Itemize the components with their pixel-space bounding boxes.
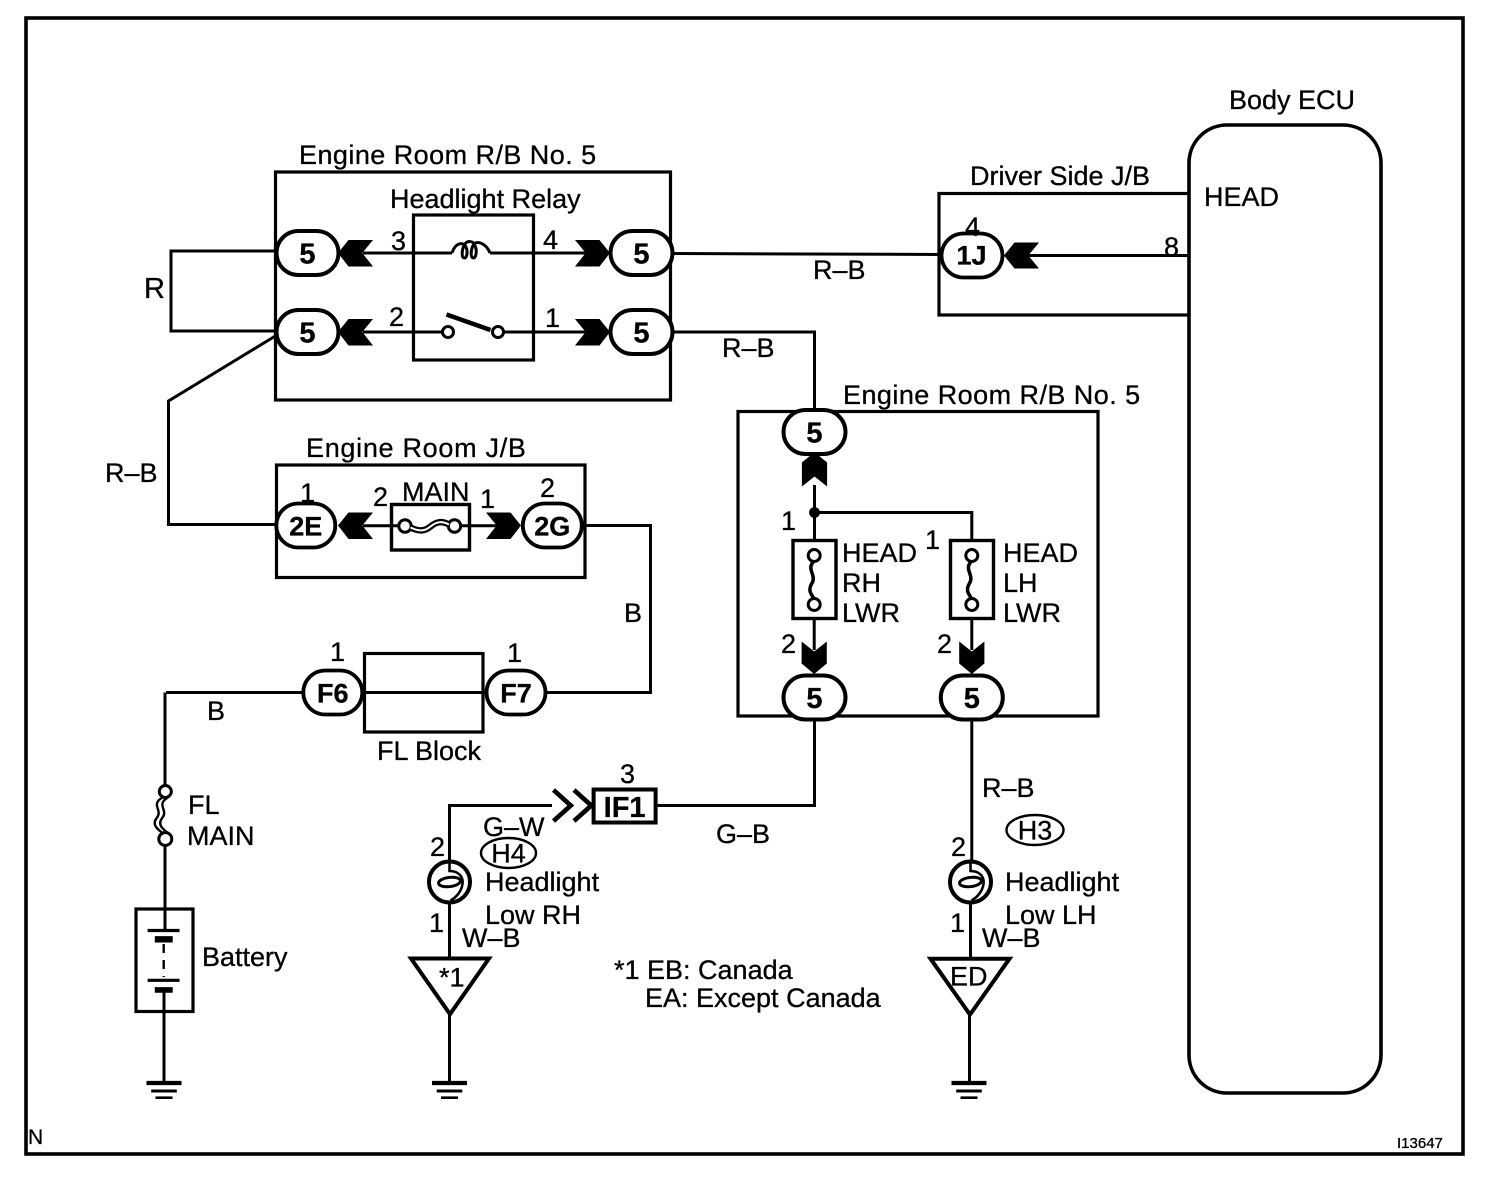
connector 5 (fuse block top): [784, 410, 846, 454]
svg-text:Headlight Relay: Headlight Relay: [390, 184, 581, 214]
svg-text:2: 2: [373, 482, 388, 512]
wire G-B: IF1 to lower-left 5: [658, 720, 815, 806]
fusible link FL MAIN terminal top: [159, 786, 171, 798]
svg-text:F6: F6: [317, 679, 349, 709]
svg-text:2: 2: [937, 629, 952, 659]
svg-text:H4: H4: [491, 839, 526, 869]
wire: arrow to relay pin 2: [363, 331, 414, 334]
wire: relay coil leads: [415, 252, 532, 255]
battery plate short (top): [155, 936, 173, 942]
svg-text:1: 1: [781, 506, 796, 536]
svg-text:2: 2: [951, 832, 966, 862]
svg-text:LH: LH: [1003, 568, 1038, 598]
wire W-B: H4 to ground *1: [448, 903, 451, 960]
wire: LH fuse to lower 5: [970, 619, 973, 651]
svg-text:1: 1: [950, 908, 965, 938]
svg-text:ED: ED: [950, 962, 988, 992]
FL Block box: [365, 654, 484, 733]
svg-text:FL Block: FL Block: [377, 736, 482, 766]
relay coil: [452, 242, 490, 258]
svg-text:*1 EB: Canada: *1 EB: Canada: [614, 955, 794, 985]
fuse HEAD RH LWR (box): [793, 541, 836, 619]
wire: HEAD pin 8 to 1J arrow: [1027, 254, 1191, 257]
wire B: F6 to left column: [166, 691, 304, 694]
ground symbol (LH): [952, 1083, 987, 1098]
wire: left column F6 down to battery: [164, 693, 167, 787]
wire B: 2G to F7: [545, 526, 651, 693]
svg-text:1: 1: [429, 908, 444, 938]
battery plate long (bottom): [148, 979, 180, 982]
svg-text:Battery: Battery: [202, 942, 288, 972]
svg-text:HEAD: HEAD: [842, 538, 917, 568]
ECU: Body ECU: [1189, 125, 1381, 1093]
svg-text:FL: FL: [188, 790, 220, 820]
relay: Headlight Relay: [414, 215, 534, 360]
svg-text:5: 5: [964, 683, 980, 715]
fusible link FL MAIN element: [155, 798, 163, 834]
svg-text:2E: 2E: [289, 512, 322, 542]
svg-text:RH: RH: [842, 568, 881, 598]
arrow left at 1J: [1004, 243, 1039, 269]
svg-text:R–B: R–B: [105, 458, 158, 488]
arrow up (into top 5): [802, 452, 827, 487]
connector F6: [303, 671, 362, 715]
bulb: Headlight Low RH (H4): [429, 862, 470, 903]
junction block: Engine Room R/B No. 5 (fuse block): [738, 412, 1098, 717]
connector 2E: [276, 504, 335, 548]
svg-text:3: 3: [620, 759, 635, 789]
battery plate long (+ top): [148, 929, 180, 932]
svg-text:5: 5: [633, 239, 649, 271]
arrow right at pin 1: [575, 319, 610, 346]
svg-text:2: 2: [430, 832, 445, 862]
ground connector ED (triangle): [931, 959, 1010, 1015]
svg-text:LWR: LWR: [1003, 598, 1061, 628]
component code H4: [481, 838, 536, 869]
svg-text:1: 1: [480, 484, 495, 514]
svg-text:5: 5: [299, 318, 315, 350]
bulb: Headlight Low LH (H3): [950, 862, 991, 903]
svg-text:Body ECU: Body ECU: [1229, 85, 1355, 115]
arrow right at pin 4: [575, 240, 610, 267]
svg-text:B: B: [624, 598, 642, 628]
wire: RH fuse to lower 5: [813, 619, 816, 651]
battery plate short (bottom): [155, 987, 173, 993]
wire: fuse leads inside J/B: [363, 524, 498, 527]
ground symbol (battery): [147, 1083, 182, 1098]
svg-text:5: 5: [806, 683, 822, 715]
ground symbol (RH): [432, 1083, 467, 1098]
connector 1J: [942, 234, 1003, 278]
svg-text:R–B: R–B: [722, 333, 775, 363]
wire: FL MAIN to battery: [164, 846, 167, 932]
svg-text:4: 4: [543, 225, 558, 255]
junction block: Engine Room J/B: [277, 465, 586, 578]
svg-text:1: 1: [330, 637, 345, 667]
svg-text:2: 2: [389, 302, 404, 332]
connector 5 (relay pin 3): [277, 231, 339, 275]
svg-text:F7: F7: [500, 679, 532, 709]
component code H3: [1007, 815, 1064, 846]
svg-text:*1: *1: [439, 963, 465, 993]
wire: *1 to ground: [448, 1015, 451, 1082]
wire R-B: relay pin1 to R/B No.5 lower: [673, 332, 815, 411]
svg-text:1: 1: [300, 478, 315, 508]
wire: battery to ground: [163, 991, 166, 1082]
svg-text:8: 8: [1164, 232, 1179, 262]
svg-text:G–B: G–B: [716, 819, 770, 849]
junction node (dot): [809, 507, 820, 518]
svg-text:Engine Room R/B No. 5: Engine Room R/B No. 5: [299, 140, 597, 170]
connector 5 (fuse block lower left): [784, 676, 846, 720]
battery (box): [136, 909, 193, 1012]
fuse MAIN terminals: [399, 520, 411, 532]
wire: ED to ground: [968, 1015, 971, 1082]
wire W-B: H3 to ground ED: [969, 903, 972, 960]
svg-text:1: 1: [507, 638, 522, 668]
wire: arrow to junction: [813, 485, 816, 540]
svg-text:HEAD: HEAD: [1003, 538, 1078, 568]
relay switch contact circles: [443, 327, 454, 338]
fuse HEAD RH LWR terminals: [808, 550, 820, 562]
svg-text:MAIN: MAIN: [402, 477, 470, 507]
connector 2G: [523, 504, 582, 548]
wire: relay pin 4 to arrow: [533, 252, 586, 255]
svg-text:1: 1: [925, 525, 940, 555]
connector arrows (double chevron) at IF1: [554, 790, 592, 821]
connector 5 (fuse block lower right): [941, 676, 1003, 720]
svg-text:4: 4: [965, 212, 980, 242]
wire G-W: to IF1 chevrons: [450, 806, 553, 862]
svg-text:1J: 1J: [956, 241, 986, 271]
svg-text:EA: Except Canada: EA: Except Canada: [645, 983, 882, 1013]
fuse HEAD LH LWR terminals: [966, 550, 978, 562]
wire: F6 to F7 through FL Block: [333, 691, 516, 694]
svg-text:1: 1: [545, 303, 560, 333]
svg-text:Headlight: Headlight: [1005, 867, 1120, 897]
connector 5 (relay pin 4): [611, 231, 673, 275]
svg-text:I13647: I13647: [1397, 1135, 1443, 1152]
wire: relay pin 1 to arrow: [533, 331, 586, 334]
arrow right at 2G: [486, 513, 521, 540]
arrow left at pin 3: [338, 240, 373, 267]
wire R: loop relay pin3 to pin2: [171, 251, 276, 331]
svg-text:W–B: W–B: [462, 923, 521, 953]
wire R-B: relay pin 4 to 1J: [673, 254, 942, 255]
connector IF1: [594, 790, 656, 825]
wire: branch to HEAD LH fuse: [815, 513, 972, 541]
fuse HEAD LH LWR element: [967, 562, 971, 599]
arrow down (into lower-right 5): [959, 642, 984, 675]
svg-text:IF1: IF1: [604, 792, 646, 824]
wire: relay switch leads: [415, 331, 532, 334]
svg-text:Headlight: Headlight: [485, 867, 600, 897]
connector F7: [487, 671, 546, 715]
connector 5 (relay pin 2): [277, 310, 339, 354]
svg-text:5: 5: [299, 239, 315, 271]
svg-text:5: 5: [806, 418, 822, 450]
svg-text:H3: H3: [1018, 816, 1053, 846]
fuse MAIN (box): [392, 505, 470, 551]
svg-text:MAIN: MAIN: [187, 821, 255, 851]
svg-text:2: 2: [540, 473, 555, 503]
wire: arrow to relay pin 3: [363, 252, 414, 255]
connector 5 (relay pin 1): [611, 310, 673, 354]
arrow left at pin 2: [338, 319, 373, 346]
wire R-B: lower-right 5 to H3: [970, 720, 973, 862]
junction block: Engine Room R/B No. 5 (relay block): [276, 172, 671, 400]
svg-text:Engine Room R/B No. 5: Engine Room R/B No. 5: [843, 380, 1141, 410]
relay switch blade: [447, 315, 491, 331]
arrow down (into lower-left 5): [802, 642, 827, 675]
fuse HEAD RH LWR element: [810, 562, 814, 599]
fusible link FL MAIN terminal bottom: [159, 833, 172, 846]
svg-text:Driver Side J/B: Driver Side J/B: [970, 161, 1150, 191]
svg-text:2: 2: [781, 629, 796, 659]
fuse HEAD LH LWR (box): [951, 541, 994, 619]
svg-text:HEAD: HEAD: [1204, 182, 1279, 212]
fuse MAIN element: [411, 522, 450, 530]
svg-text:B: B: [207, 696, 225, 726]
ground connector *1 (triangle): [411, 959, 489, 1015]
svg-text:R–B: R–B: [982, 773, 1035, 803]
svg-text:Engine Room J/B: Engine Room J/B: [306, 433, 527, 463]
svg-text:R: R: [144, 273, 165, 305]
svg-text:R–B: R–B: [813, 255, 866, 285]
svg-text:N: N: [28, 1126, 43, 1149]
wire R-B: relay pin2 to 2E (diagonal): [169, 335, 278, 525]
junction block: Driver Side J/B: [939, 194, 1193, 316]
svg-text:LWR: LWR: [842, 598, 900, 628]
svg-text:W–B: W–B: [982, 923, 1041, 953]
svg-text:2G: 2G: [534, 512, 570, 542]
svg-text:5: 5: [633, 318, 649, 350]
arrow left at 2E: [338, 513, 373, 540]
battery dashed center link: [162, 944, 164, 977]
